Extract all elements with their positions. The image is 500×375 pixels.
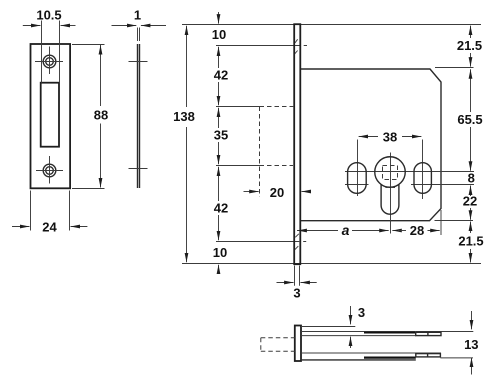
dim 21.5 bottom arrows/lines	[470, 222, 472, 234]
section small box B	[416, 354, 441, 357]
tangent line y=184.4 segments	[345, 184, 474, 186]
chain ext line y=106	[216, 106, 260, 108]
svg-text:8: 8	[468, 171, 475, 186]
dim 3 faceplate arrows	[277, 282, 294, 284]
svg-text:22: 22	[463, 194, 477, 209]
svg-text:10: 10	[212, 27, 226, 42]
side view screw tick top	[129, 61, 148, 63]
hidden dashes below square	[386, 187, 396, 189]
dim 24 arrows	[12, 226, 30, 228]
dim 20 arrows	[244, 191, 259, 193]
svg-text:138: 138	[173, 109, 195, 124]
section line B2	[301, 359, 416, 361]
right oval hole	[414, 163, 431, 194]
dim 42 upper arrows and line	[218, 47, 220, 60]
right ext line y=68	[435, 67, 474, 69]
svg-text:88: 88	[94, 108, 108, 123]
dashed follower square	[383, 166, 398, 180]
dim 35 arrows and line	[218, 108, 220, 120]
svg-text:13: 13	[464, 337, 478, 352]
svg-text:3: 3	[293, 286, 300, 301]
dim 10.5 extension lines	[42, 21, 60, 83]
svg-text:28: 28	[410, 223, 424, 238]
right ext line y=220.7	[435, 220, 474, 222]
strike plate side view	[138, 44, 140, 188]
section line T3	[301, 335, 416, 337]
section top line T1	[301, 326, 355, 328]
svg-text:1: 1	[134, 8, 141, 23]
section box T divider	[427, 332, 429, 335]
strike plate outline	[31, 44, 71, 188]
dim 22 arrows/lines	[470, 186, 472, 197]
section thick bar B	[364, 356, 416, 358]
svg-text:3: 3	[358, 305, 365, 320]
horizontal centerline y=171.7	[345, 171, 474, 173]
dim 28 arrows and lines	[392, 230, 398, 232]
screw hole top inner circle	[46, 58, 54, 66]
dim 88 extension lines	[72, 45, 105, 189]
faceplate front view	[294, 24, 300, 264]
main view bottom extension line	[182, 263, 481, 265]
dim 1 arrows	[112, 25, 137, 27]
main view top extension line	[182, 24, 481, 26]
section right ext line bottom	[440, 357, 473, 359]
svg-text:10.5: 10.5	[36, 7, 61, 22]
dashed pocket 20mm	[260, 107, 295, 197]
dim 24 extension lines	[31, 191, 70, 231]
dim 38 extension/centerline left oval	[357, 140, 359, 197]
dim 42 lower arrows and line	[218, 167, 220, 180]
dim 10.5 arrows	[23, 25, 41, 27]
dim 1 extension lines	[138, 28, 140, 42]
faceplate screw mark ticks top	[294, 39, 297, 54]
svg-text:42: 42	[214, 68, 228, 83]
lock case outline	[301, 69, 441, 221]
section dim 3 arrows	[350, 306, 352, 324]
faceplate screw mark ticks bottom	[294, 234, 298, 250]
chain ext line y=46 to faceplate	[216, 45, 307, 47]
screw hole bottom inner circle	[46, 167, 54, 175]
dim 13 arrows	[471, 311, 473, 329]
dim a line with arrows	[297, 230, 389, 232]
left oval hole	[348, 163, 367, 194]
cylinder slot	[381, 184, 399, 214]
dim 21.5 top arrows/lines	[470, 26, 472, 38]
cylinder vertical centerline	[390, 153, 392, 234]
chain ext line y=165	[216, 165, 260, 167]
dim 38 extension/centerline right oval	[422, 140, 424, 200]
screw hole top outer circle	[43, 55, 56, 68]
chain dim line: bottom outside arrow	[218, 265, 220, 274]
section dashed pocket	[261, 338, 295, 351]
section line T2 thin-thick-thin	[301, 331, 364, 333]
svg-text:21.5: 21.5	[457, 38, 482, 53]
svg-text:a: a	[342, 222, 350, 238]
strike plate slot cutout	[41, 83, 59, 147]
side view screw tick bottom	[129, 168, 148, 170]
dim 3 faceplate ext lines	[295, 266, 300, 286]
section box B divider	[427, 354, 429, 357]
svg-text:42: 42	[214, 201, 228, 216]
svg-text:21.5: 21.5	[458, 234, 483, 249]
screw hole bottom crosshair	[36, 156, 63, 184]
svg-text:20: 20	[270, 185, 284, 200]
dim 38 arrows	[359, 136, 378, 138]
svg-text:10: 10	[213, 245, 227, 260]
dim 138 line with arrows	[186, 26, 188, 107]
dim 88 line with arrows	[100, 45, 102, 106]
screw hole top crosshair	[35, 47, 63, 75]
section line B1	[301, 352, 441, 354]
svg-text:65.5: 65.5	[457, 112, 482, 127]
chain ext line y=241.8 to faceplate	[216, 241, 306, 243]
case right edge extension	[440, 210, 442, 235]
dim 65.5 arrows/lines	[470, 69, 472, 82]
cylinder circle	[375, 157, 406, 188]
svg-text:35: 35	[214, 128, 228, 143]
chain dim line: top outside arrow	[218, 12, 220, 24]
section faceplate	[295, 326, 301, 362]
svg-text:38: 38	[383, 129, 397, 144]
section small box T	[416, 332, 441, 335]
svg-text:24: 24	[42, 219, 57, 234]
screw hole bottom outer circle	[43, 164, 56, 177]
